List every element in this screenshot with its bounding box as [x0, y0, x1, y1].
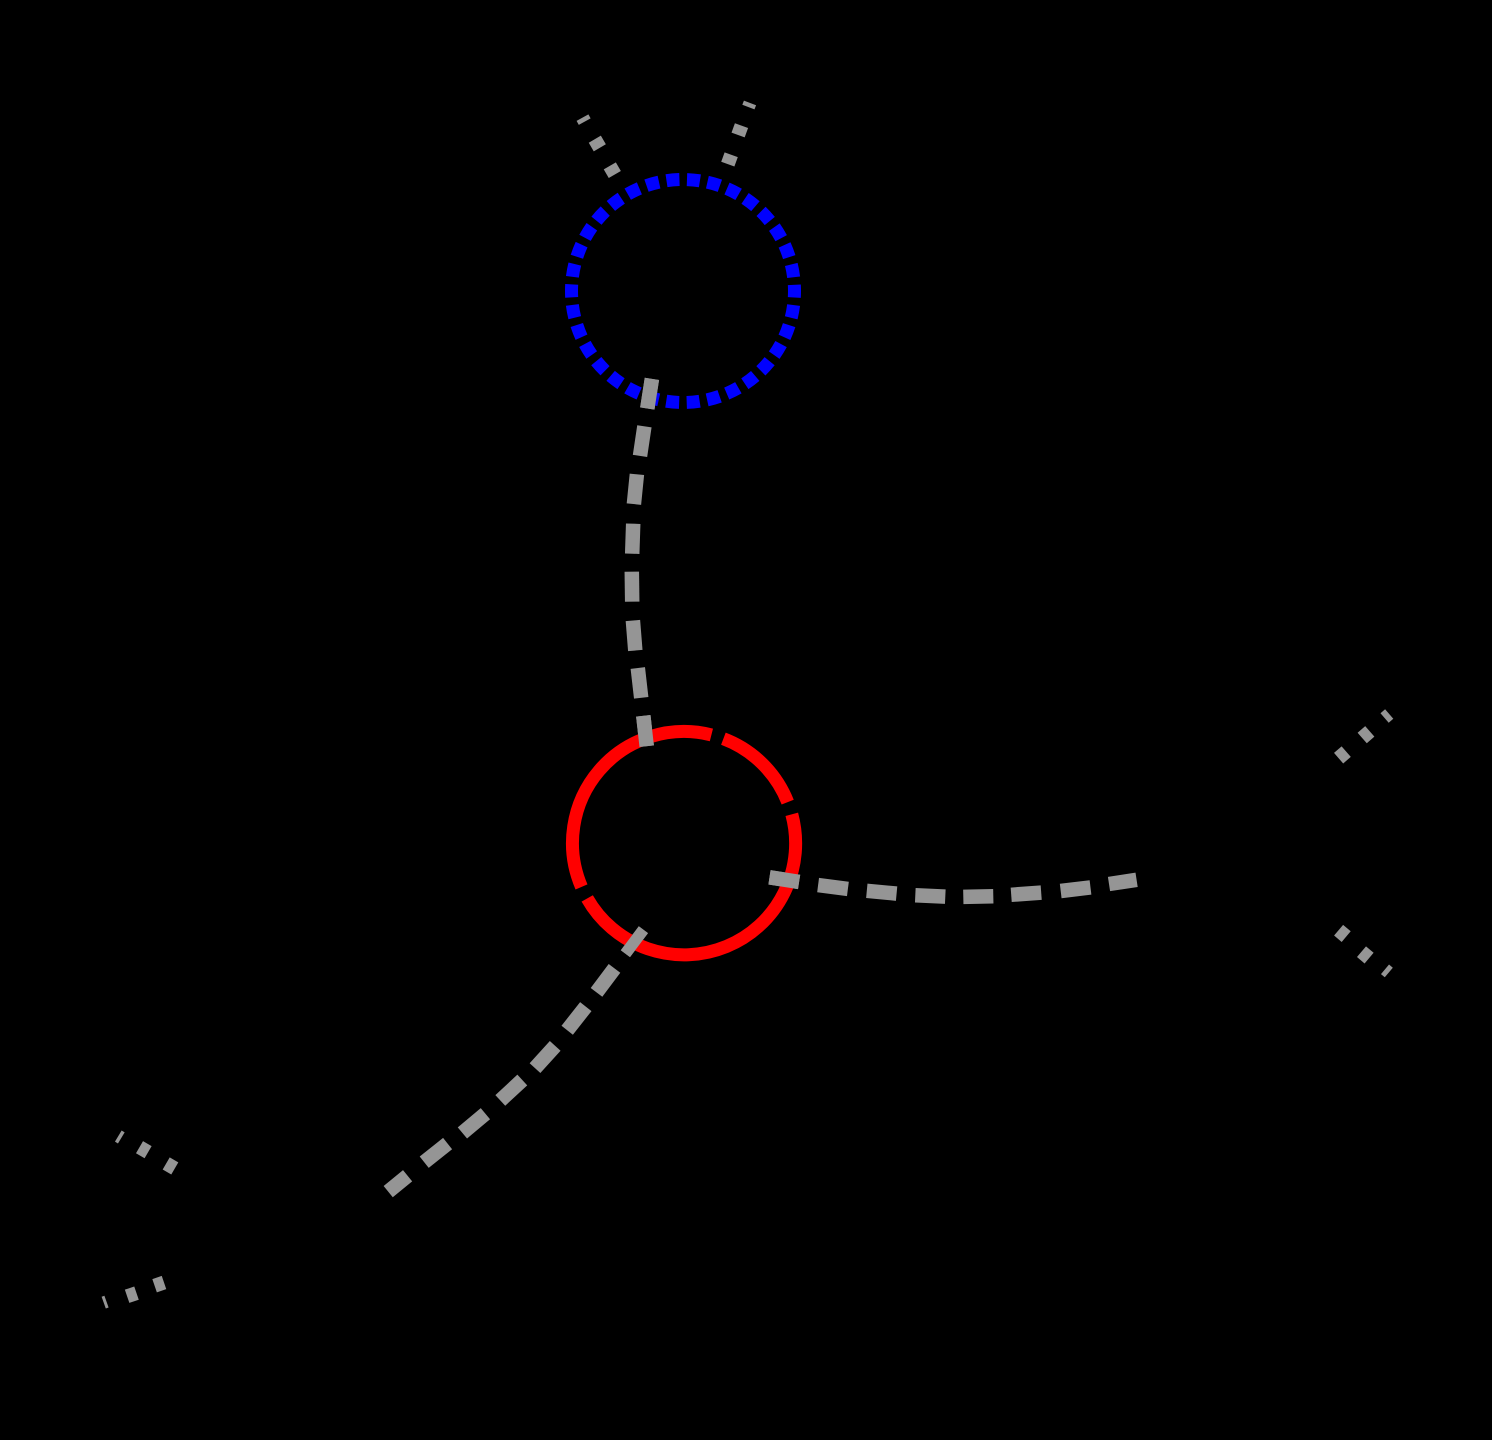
edge C: red node to lower-left node, dashed gray [388, 930, 643, 1192]
edge A: blue node to red node, dashed gray [632, 379, 652, 746]
edge B dash over red ring [770, 877, 800, 882]
run F: edge from right node to top-right [1339, 714, 1390, 758]
blue node: dashed circle [572, 180, 795, 403]
edge A dash over blue ring [647, 379, 652, 409]
edge C dash over red ring [625, 930, 643, 954]
edge A dash over red ring [643, 716, 646, 746]
red node: dashed circle (three arcs) [572, 731, 795, 954]
run H: edge from lower-left node to upper-left [118, 1136, 175, 1168]
run I: edge from lower-left node to left [104, 1283, 164, 1303]
run E: edge from blue node to upper-right [728, 103, 750, 164]
run G: edge from right node to bottom-right [1339, 930, 1389, 972]
run D: edge from blue node to upper-left [583, 118, 615, 175]
edge B: red node to right node, dashed gray [770, 877, 1137, 897]
